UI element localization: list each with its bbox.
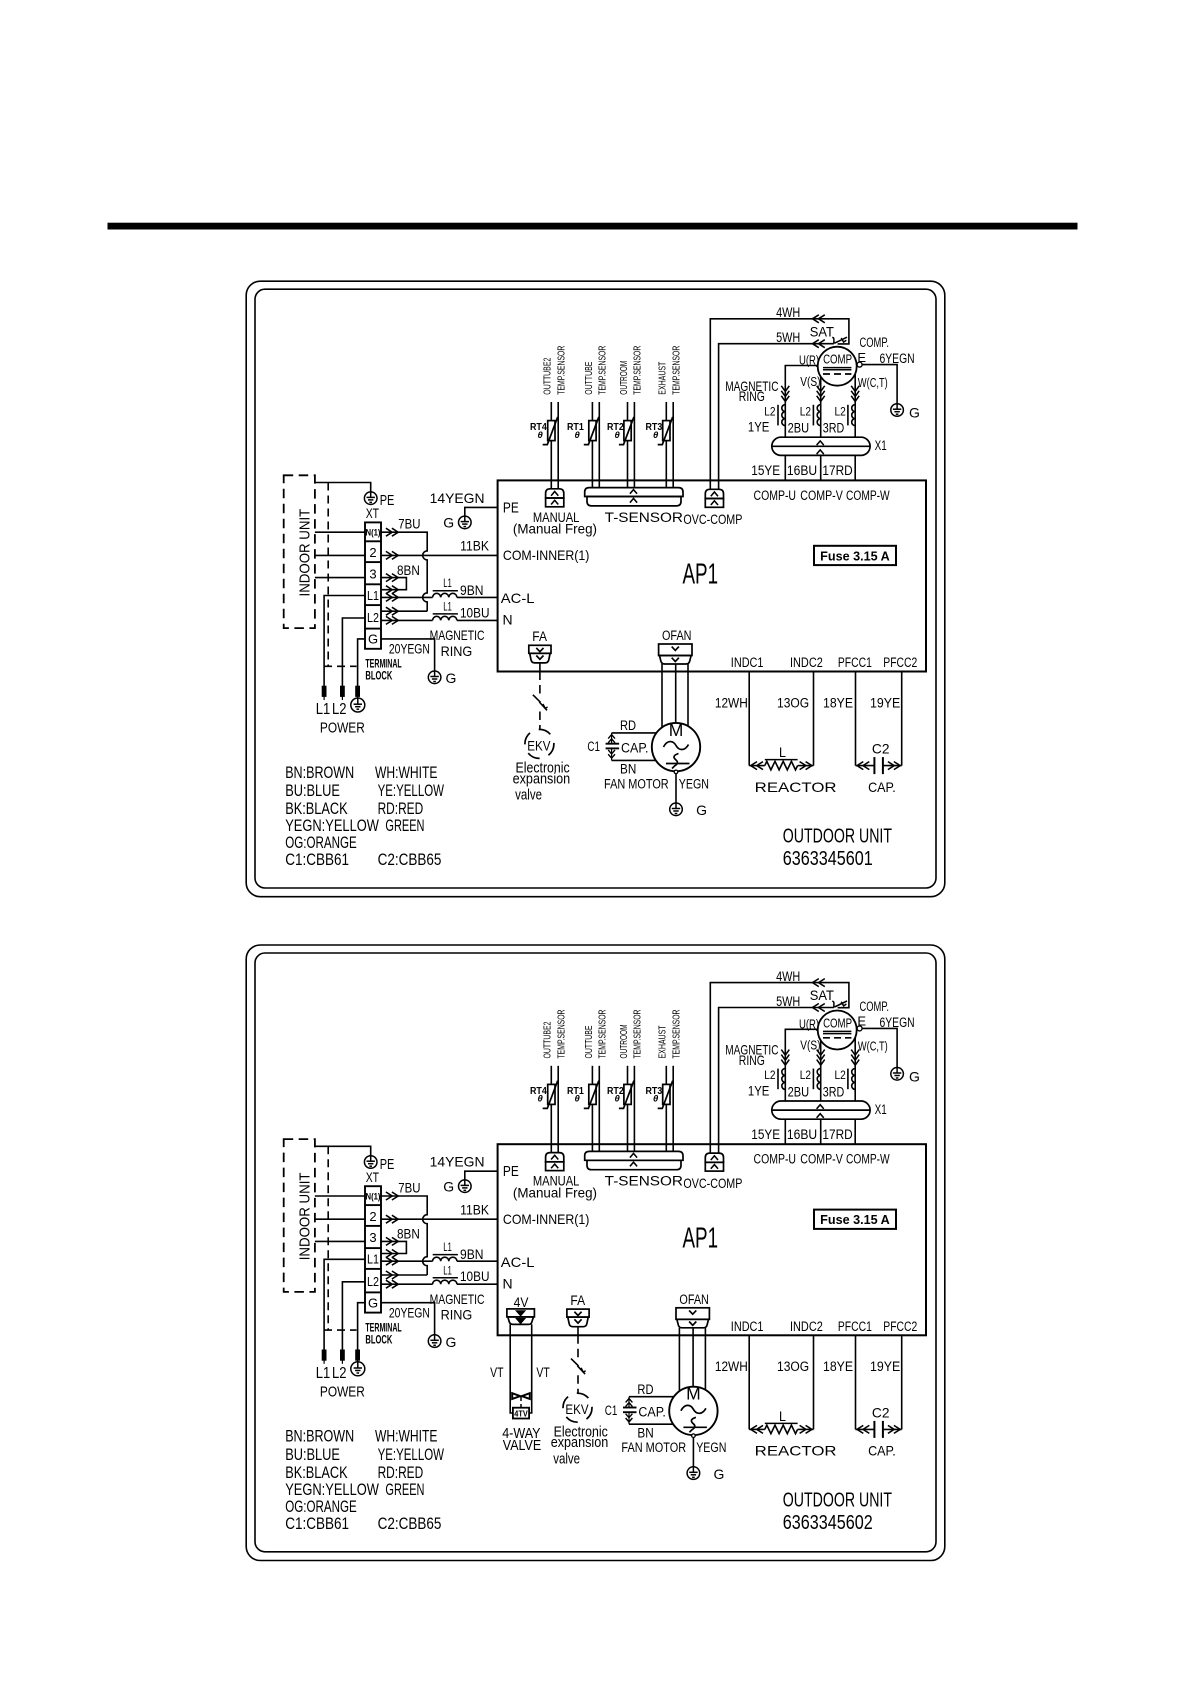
label MAGNETIC RING compressor <box>725 1042 778 1068</box>
wire 14YEGN <box>430 490 498 516</box>
svg-text:Fuse 3.15 A: Fuse 3.15 A <box>820 1213 890 1227</box>
connector MANUAL <box>513 489 597 537</box>
svg-text:θ: θ <box>575 430 581 441</box>
PCB AP1 <box>498 1144 926 1335</box>
svg-text:19YE: 19YE <box>870 695 900 710</box>
svg-text:θ: θ <box>653 1094 659 1105</box>
svg-text:C2: C2 <box>872 741 890 757</box>
svg-text:9BN: 9BN <box>460 583 484 598</box>
connector T-SENSOR <box>585 488 684 525</box>
capacitor C1 <box>605 1397 666 1425</box>
inductor L2 on 1YE <box>764 1068 785 1089</box>
svg-text:5WH: 5WH <box>776 994 800 1009</box>
svg-text:17RD: 17RD <box>822 463 853 478</box>
svg-text:YE:YELLOW: YE:YELLOW <box>378 781 444 800</box>
svg-text:GREEN: GREEN <box>385 816 424 835</box>
title OUTDOOR UNIT part number <box>783 1488 893 1534</box>
svg-text:3RD: 3RD <box>823 421 845 436</box>
svg-text:MAGNETIC: MAGNETIC <box>430 1291 485 1307</box>
wires OFAN to fan motor <box>662 664 688 728</box>
inner border frame <box>255 289 936 888</box>
svg-text:15YE: 15YE <box>751 1127 780 1142</box>
wire INDC1 12WH <box>715 1335 749 1429</box>
svg-text:1YE: 1YE <box>748 420 770 435</box>
inductor L2 on 3RD <box>835 1068 856 1089</box>
valve EKV electronic expansion <box>563 1335 592 1422</box>
compressor COMP <box>818 335 889 386</box>
wire BN <box>629 1424 674 1440</box>
svg-text:PE: PE <box>503 1164 519 1180</box>
wire 7BU <box>381 1180 427 1275</box>
connector X1 <box>772 437 887 455</box>
svg-text:COMP.: COMP. <box>860 999 890 1014</box>
svg-text:valve: valve <box>515 787 542 804</box>
connector 4V <box>507 1309 535 1325</box>
wire 5WH <box>719 330 834 489</box>
svg-text:L2: L2 <box>800 1068 812 1082</box>
svg-text:YE:YELLOW: YE:YELLOW <box>378 1445 444 1464</box>
svg-text:CAP.: CAP. <box>868 1443 896 1459</box>
wire V(S) 2BU <box>800 374 824 437</box>
wire L2 jumper <box>381 607 427 615</box>
svg-text:TEMP.SENSOR: TEMP.SENSOR <box>633 346 644 395</box>
svg-text:COM-INNER(1): COM-INNER(1) <box>503 1211 590 1227</box>
legend color codes <box>285 763 444 869</box>
label MAGNETIC RING <box>430 627 485 659</box>
svg-text:L1: L1 <box>443 576 452 590</box>
svg-text:BU:BLUE: BU:BLUE <box>285 1445 340 1464</box>
svg-text:COMP-V: COMP-V <box>800 1152 843 1167</box>
header rule bar <box>108 223 1077 229</box>
terminal E <box>857 1014 866 1031</box>
svg-text:N(1): N(1) <box>366 528 381 538</box>
labels 1YE 2BU 3RD <box>748 1083 845 1099</box>
wire 4WH <box>710 305 849 489</box>
svg-text:X1: X1 <box>875 1102 887 1117</box>
svg-text:RING: RING <box>739 388 765 404</box>
labels COMP-U COMP-V COMP-W <box>754 1152 890 1167</box>
valve EKV electronic expansion <box>525 672 554 759</box>
ground PE <box>364 1156 394 1185</box>
wire U(R) 1YE <box>781 1016 819 1101</box>
terminal block XT <box>365 522 381 648</box>
svg-text:G: G <box>696 802 707 818</box>
label MAGNETIC RING <box>430 1291 485 1323</box>
svg-text:TEMP.SENSOR: TEMP.SENSOR <box>671 1010 682 1059</box>
svg-text:COMP: COMP <box>823 352 852 367</box>
svg-text:BLOCK: BLOCK <box>365 671 392 683</box>
svg-text:L1: L1 <box>316 701 331 718</box>
wires 15YE 16BU 17RD <box>751 455 855 480</box>
svg-text:L2: L2 <box>367 611 379 625</box>
svg-text:PFCC1: PFCC1 <box>838 655 872 670</box>
PCB AP1 <box>498 480 926 671</box>
svg-text:W(C,T): W(C,T) <box>858 375 888 390</box>
node fan motor ground <box>674 770 678 803</box>
label L1 L2 POWER <box>316 1365 347 1382</box>
compressor COMP <box>818 999 889 1050</box>
ground G compressor <box>891 1068 920 1085</box>
sensor RT4 outtube2 temp <box>530 346 567 489</box>
svg-text:L2: L2 <box>764 404 776 418</box>
wire U(R) 1YE <box>781 353 819 438</box>
svg-text:COMP-U: COMP-U <box>754 488 797 503</box>
svg-text:N: N <box>503 612 513 628</box>
svg-text:FAN MOTOR: FAN MOTOR <box>621 1440 686 1455</box>
wire 20YEGN <box>381 1303 435 1335</box>
wire G power <box>358 639 365 686</box>
svg-text:FAN MOTOR: FAN MOTOR <box>604 776 669 791</box>
motor M fan <box>669 1384 717 1436</box>
svg-text:VALVE: VALVE <box>503 1438 542 1454</box>
svg-text:valve: valve <box>553 1450 580 1467</box>
svg-text:BN:BROWN: BN:BROWN <box>285 1427 354 1446</box>
svg-text:TEMP.SENSOR: TEMP.SENSOR <box>556 346 567 395</box>
svg-text:EKV: EKV <box>565 1402 588 1417</box>
terminal E <box>857 350 866 367</box>
labels 1YE 2BU 3RD <box>748 420 845 436</box>
svg-text:6363345601: 6363345601 <box>783 847 873 870</box>
wire indoor to 3 <box>315 577 365 579</box>
label FAN MOTOR YEGN <box>604 776 709 791</box>
svg-text:expansion: expansion <box>513 770 571 787</box>
svg-text:M: M <box>669 720 684 740</box>
inductor L2 on 1YE <box>764 404 785 425</box>
svg-text:M: M <box>686 1384 701 1404</box>
svg-text:θ: θ <box>615 1094 621 1105</box>
wire L2 jumper <box>381 1271 427 1279</box>
wire RD <box>629 1382 674 1397</box>
svg-text:COMP.: COMP. <box>860 335 890 350</box>
svg-text:L2: L2 <box>332 701 347 718</box>
svg-text:T-SENSOR: T-SENSOR <box>605 1174 684 1189</box>
svg-text:2BU: 2BU <box>788 1084 810 1099</box>
ground PE <box>364 492 394 521</box>
svg-text:4WH: 4WH <box>776 969 800 984</box>
svg-text:18YE: 18YE <box>823 1359 853 1374</box>
motor M fan <box>652 720 700 772</box>
svg-text:OUTTUBE2: OUTTUBE2 <box>543 357 554 394</box>
svg-text:G: G <box>443 515 454 531</box>
wire PFCC2 19YE <box>870 1335 902 1429</box>
svg-text:5WH: 5WH <box>776 330 800 345</box>
sensor RT1 outtube temp <box>567 346 608 488</box>
wire 10BU with magnetic ring L1 <box>381 1263 498 1288</box>
svg-text:VT: VT <box>490 1365 503 1380</box>
label 4V <box>514 1294 529 1310</box>
connector OFAN <box>659 644 692 664</box>
svg-text:OUTDOOR UNIT: OUTDOOR UNIT <box>783 1488 893 1511</box>
svg-text:C1:CBB61: C1:CBB61 <box>285 1514 349 1533</box>
svg-text:RD: RD <box>620 718 636 733</box>
wire indoor-unit to PE <box>315 1146 371 1155</box>
inductor L2 on 2BU <box>800 1068 821 1089</box>
wire 20YEGN <box>381 639 435 671</box>
outer border frame <box>246 945 945 1561</box>
dashed power cable boundary <box>324 483 357 667</box>
label OFAN <box>662 628 692 643</box>
svg-text:PE: PE <box>503 500 519 516</box>
svg-text:L2: L2 <box>332 1365 347 1382</box>
svg-text:12WH: 12WH <box>715 1359 748 1374</box>
svg-text:C1: C1 <box>605 1403 618 1418</box>
svg-text:(Manual Freg): (Manual Freg) <box>513 521 597 537</box>
svg-text:8BN: 8BN <box>397 1227 420 1242</box>
svg-text:AP1: AP1 <box>683 1223 719 1255</box>
svg-text:L2: L2 <box>835 404 847 418</box>
svg-text:14YEGN: 14YEGN <box>430 1154 485 1170</box>
indoor unit (dashed box) <box>284 475 315 628</box>
sensor RT2 outroom temp <box>607 346 644 488</box>
wire G power <box>358 1303 365 1350</box>
svg-text:XT: XT <box>366 1169 380 1185</box>
svg-text:OFAN: OFAN <box>662 628 692 643</box>
svg-text:θ: θ <box>615 430 621 441</box>
sensor RT3 exhaust temp <box>646 346 683 488</box>
svg-text:17RD: 17RD <box>822 1127 853 1142</box>
svg-text:15YE: 15YE <box>751 463 780 478</box>
svg-text:L1: L1 <box>443 600 452 614</box>
wire W(C,T) 3RD <box>851 374 888 438</box>
wire INDC2 13OG <box>777 1335 814 1429</box>
svg-text:L2: L2 <box>367 1275 379 1289</box>
svg-text:TEMP.SENSOR: TEMP.SENSOR <box>633 1010 644 1059</box>
svg-text:13OG: 13OG <box>777 695 809 710</box>
label TERMINAL BLOCK <box>365 659 401 683</box>
svg-text:TERMINAL: TERMINAL <box>365 1322 401 1334</box>
svg-text:TEMP.SENSOR: TEMP.SENSOR <box>597 1010 608 1059</box>
svg-text:RING: RING <box>441 1307 473 1323</box>
svg-text:6363345602: 6363345602 <box>783 1511 873 1534</box>
wire L2 power <box>342 1282 365 1350</box>
label Electronic expansion valve <box>513 760 571 804</box>
svg-text:XT: XT <box>366 505 380 521</box>
svg-text:COMP-W: COMP-W <box>846 1152 890 1167</box>
wire BN <box>612 760 657 776</box>
valve 4-way body <box>512 1393 530 1418</box>
fuse F1 Fuse 3.15 A <box>814 546 896 565</box>
wire PFCC1 18YE <box>823 672 856 766</box>
wire PFCC2 19YE <box>870 672 902 766</box>
connector OFAN <box>676 1308 709 1328</box>
svg-text:TERMINAL: TERMINAL <box>365 659 401 671</box>
thermal switch SAT <box>810 323 847 343</box>
wire W(C,T) 3RD <box>851 1037 888 1101</box>
wire 8BN <box>381 563 420 594</box>
wire 10BU with magnetic ring L1 <box>381 600 498 625</box>
inductor L2 on 3RD <box>835 404 856 425</box>
ground G compressor <box>891 404 920 421</box>
svg-text:PFCC1: PFCC1 <box>838 1319 872 1334</box>
svg-text:REACTOR: REACTOR <box>755 1443 837 1459</box>
svg-text:INDC2: INDC2 <box>790 1319 823 1334</box>
inner border frame <box>255 953 936 1552</box>
svg-text:θ: θ <box>538 1094 544 1105</box>
wires OFAN to fan motor <box>679 1328 705 1392</box>
label FAN MOTOR YEGN <box>621 1440 726 1455</box>
title OUTDOOR UNIT part number <box>783 825 893 871</box>
svg-text:W(C,T): W(C,T) <box>858 1039 888 1054</box>
svg-text:2: 2 <box>369 545 376 560</box>
svg-text:YEGN: YEGN <box>696 1440 726 1455</box>
label Electronic expansion valve <box>551 1423 609 1467</box>
wire INDC1 12WH <box>715 672 749 766</box>
wire indoor-unit to PE <box>315 483 371 492</box>
svg-text:G: G <box>909 405 920 421</box>
svg-text:L1: L1 <box>367 1253 379 1267</box>
labels COMP-U COMP-V COMP-W <box>754 488 890 503</box>
wire INDC2 13OG <box>777 672 814 766</box>
svg-text:8BN: 8BN <box>397 563 420 578</box>
ground G fan motor <box>670 802 707 818</box>
svg-text:INDC1: INDC1 <box>731 1319 764 1334</box>
svg-text:MAGNETIC: MAGNETIC <box>430 627 485 643</box>
inductor L2 on 2BU <box>800 404 821 425</box>
svg-text:4TV: 4TV <box>514 1409 528 1419</box>
wire indoor to 3 <box>315 1240 365 1242</box>
label POWER <box>320 720 365 737</box>
wire L1 power <box>324 1259 365 1350</box>
svg-text:OUTROOM: OUTROOM <box>619 361 630 395</box>
svg-text:3: 3 <box>369 566 376 581</box>
wire indoor to N(1) <box>315 1195 365 1197</box>
wire 4WH <box>710 969 849 1153</box>
svg-text:REACTOR: REACTOR <box>755 779 837 795</box>
svg-text:EXHAUST: EXHAUST <box>658 1026 669 1059</box>
connector OVC-COMP <box>683 1153 742 1191</box>
ground power <box>351 1362 365 1376</box>
svg-text:7BU: 7BU <box>398 1180 420 1195</box>
label OFAN <box>679 1292 709 1307</box>
ground power <box>351 698 365 712</box>
svg-text:OVC-COMP: OVC-COMP <box>683 1175 742 1191</box>
reactor L <box>749 744 836 795</box>
label POWER <box>320 1383 365 1400</box>
wire indoor to 2 <box>315 1218 365 1220</box>
wire 14YEGN <box>430 1154 498 1180</box>
svg-text:G: G <box>368 1295 378 1310</box>
svg-text:L1: L1 <box>367 589 379 603</box>
wire V(S) 2BU <box>800 1038 824 1101</box>
svg-text:RING: RING <box>441 643 473 659</box>
svg-text:POWER: POWER <box>320 1383 365 1400</box>
svg-text:SAT: SAT <box>810 323 835 339</box>
svg-text:L2: L2 <box>764 1068 776 1082</box>
svg-text:OUTROOM: OUTROOM <box>619 1025 630 1059</box>
svg-text:2: 2 <box>369 1209 376 1224</box>
svg-text:G: G <box>368 632 378 647</box>
svg-text:G: G <box>446 1334 457 1350</box>
svg-text:C1:CBB61: C1:CBB61 <box>285 850 349 869</box>
svg-text:18YE: 18YE <box>823 695 853 710</box>
svg-text:C2:CBB65: C2:CBB65 <box>378 1514 442 1533</box>
svg-text:COMP: COMP <box>823 1015 852 1030</box>
svg-text:11BK: 11BK <box>460 539 489 554</box>
svg-text:G: G <box>443 1178 454 1194</box>
fuse F1 Fuse 3.15 A <box>814 1210 896 1229</box>
ground G 14YEGN <box>443 515 471 531</box>
capacitor C2 <box>856 741 902 795</box>
sensor RT2 outroom temp <box>607 1010 644 1152</box>
svg-text:L1: L1 <box>443 1240 452 1254</box>
svg-text:OUTDOOR UNIT: OUTDOOR UNIT <box>783 825 893 848</box>
svg-text:20YEGN: 20YEGN <box>389 642 430 657</box>
svg-text:INDC1: INDC1 <box>731 655 764 670</box>
capacitor C2 <box>856 1404 902 1458</box>
svg-text:X1: X1 <box>875 438 887 453</box>
svg-text:10BU: 10BU <box>460 1269 490 1284</box>
svg-text:θ: θ <box>653 430 659 441</box>
svg-text:WH:WHITE: WH:WHITE <box>375 763 438 782</box>
label FA <box>570 1292 585 1308</box>
svg-text:INDOOR UNIT: INDOOR UNIT <box>297 1173 314 1261</box>
svg-text:13OG: 13OG <box>777 1359 809 1374</box>
svg-text:VT: VT <box>536 1365 549 1380</box>
ground G fan motor <box>687 1466 724 1482</box>
svg-text:OVC-COMP: OVC-COMP <box>683 511 742 527</box>
svg-text:PE: PE <box>380 493 395 509</box>
svg-text:C1: C1 <box>587 739 600 754</box>
svg-text:POWER: POWER <box>320 720 365 737</box>
svg-text:N: N <box>503 1275 513 1291</box>
svg-text:OUTTUBE: OUTTUBE <box>584 361 595 394</box>
svg-text:6YEGN: 6YEGN <box>880 351 915 366</box>
svg-text:BN: BN <box>620 762 636 777</box>
ground G 14YEGN <box>443 1178 471 1194</box>
outer border frame <box>246 281 945 897</box>
svg-text:OUTTUBE2: OUTTUBE2 <box>543 1021 554 1058</box>
wire PFCC1 18YE <box>823 1335 856 1429</box>
svg-text:L: L <box>779 744 786 760</box>
svg-text:16BU: 16BU <box>787 463 817 478</box>
capacitor C1 <box>587 733 648 761</box>
svg-text:EXHAUST: EXHAUST <box>658 362 669 395</box>
dashed power cable boundary <box>324 1146 357 1330</box>
svg-text:(Manual Freg): (Manual Freg) <box>513 1184 597 1200</box>
svg-text:OFAN: OFAN <box>679 1292 709 1307</box>
svg-text:14YEGN: 14YEGN <box>430 490 485 506</box>
svg-text:L: L <box>779 1408 786 1424</box>
wires 15YE 16BU 17RD <box>751 1119 855 1144</box>
svg-text:OUTTUBE: OUTTUBE <box>584 1025 595 1058</box>
svg-text:L2: L2 <box>800 404 812 418</box>
svg-text:4WH: 4WH <box>776 305 800 320</box>
labels INDC1 INDC2 PFCC1 PFCC2 <box>731 655 918 670</box>
svg-text:1YE: 1YE <box>748 1083 770 1098</box>
svg-text:AP1: AP1 <box>683 559 719 591</box>
connector OVC-COMP <box>683 489 742 527</box>
svg-text:C2: C2 <box>872 1404 890 1420</box>
svg-text:CAP.: CAP. <box>621 741 649 756</box>
svg-text:PFCC2: PFCC2 <box>883 1319 917 1334</box>
svg-text:L1: L1 <box>316 1365 331 1382</box>
svg-text:CAP.: CAP. <box>638 1404 666 1419</box>
svg-text:G: G <box>909 1068 920 1084</box>
svg-text:4V: 4V <box>514 1294 529 1310</box>
wire indoor to 2 <box>315 554 365 556</box>
svg-text:INDC2: INDC2 <box>790 655 823 670</box>
svg-text:INDOOR UNIT: INDOOR UNIT <box>297 509 314 597</box>
sensor RT3 exhaust temp <box>646 1010 683 1152</box>
wire RD <box>612 718 657 733</box>
svg-text:PFCC2: PFCC2 <box>883 655 917 670</box>
node fan motor ground <box>692 1434 696 1467</box>
svg-text:19YE: 19YE <box>870 1359 900 1374</box>
wires VT to 4-way valve <box>490 1324 550 1413</box>
labels INDC1 INDC2 PFCC1 PFCC2 <box>731 1319 918 1334</box>
svg-text:L1: L1 <box>443 1263 452 1277</box>
svg-text:COMP-W: COMP-W <box>846 488 890 503</box>
